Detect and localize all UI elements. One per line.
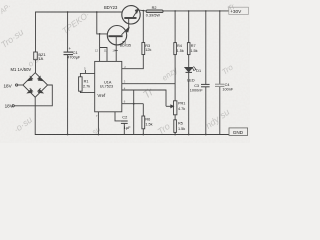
transistor T2 emitter diag [133, 10, 138, 17]
wire R1 bottom to IC Vref [80, 91, 94, 92]
resistor R1 [79, 77, 83, 91]
node AC input 1 terminal [16, 84, 18, 86]
transistor T1 emitter arrow [126, 28, 129, 32]
wire IC pin to wiper column [122, 90, 166, 106]
capacitor C4 leads [219, 11, 221, 84]
capacitor C4 plates [215, 84, 224, 86]
wire IC output pin up to base wire [99, 34, 101, 62]
resistor R3 [142, 43, 145, 55]
resistor R5 [174, 120, 177, 133]
wire R4 column [174, 11, 176, 43]
resistor R2 body [146, 10, 163, 13]
wire R1 top to IC [80, 73, 94, 76]
resistor R4 [174, 43, 177, 55]
capacitor C2 plates [121, 120, 128, 122]
transistor T2 BDY23 [122, 6, 140, 24]
watermark diagonal text [0, 2, 237, 137]
junction dots [67, 11, 69, 13]
wire IC bottom pin to rail [97, 112, 99, 135]
wire IC top pin 2 [100, 48, 107, 62]
resistor R7 [187, 43, 190, 55]
transistor T2 base bar [124, 17, 136, 19]
IC U1 UL7523 regulator box [95, 61, 122, 111]
wire IC pin to R4 column [122, 83, 175, 85]
wire R7 column / LED column [188, 11, 190, 43]
diode D1 LED [185, 68, 193, 72]
wire PR1 to R5 [174, 115, 176, 120]
wire AC2 [14, 85, 52, 106]
wire R6 column [142, 104, 144, 116]
wire IC pin to R6 [122, 103, 144, 105]
paper background [0, 0, 250, 143]
fuse BZ1 1A [34, 52, 38, 60]
wire junction tick [84, 70, 86, 73]
transistor T1 BDX35 [107, 26, 126, 45]
wire T2 base down / T1 diag [122, 19, 129, 35]
component strokes layer 2 [27, 9, 224, 135]
wire T1 emitter to IC [115, 37, 117, 61]
potentiometer PR1 wiper arrow [171, 105, 174, 108]
capacitor C3 leads [205, 11, 207, 85]
wire R3 bottom to IC [122, 55, 144, 69]
capacitor C1 plates [64, 51, 74, 53]
node AC input 2 terminal [12, 105, 14, 107]
capacitor C3 plates [201, 83, 210, 85]
capacitor C1 leads [67, 12, 69, 52]
resistor R6 [142, 116, 145, 129]
GND box [229, 128, 248, 135]
wire AC1 [18, 84, 23, 86]
pin numbers [84, 49, 126, 119]
wire rail down to T1 base [97, 12, 108, 34]
wire wiper arrow [166, 105, 173, 107]
wire R3 top [142, 11, 144, 43]
wire: bottom rail [35, 97, 229, 134]
transistor T1 base bar [108, 35, 122, 37]
potentiometer PR1 [174, 101, 177, 115]
+30V box [229, 7, 249, 14]
wire: top unregulated rail [35, 60, 37, 73]
paper grain overlay [0, 0, 250, 143]
wire mid vertical [133, 90, 135, 135]
wire output rail [138, 10, 146, 11]
capacitor C2 leads [115, 112, 121, 121]
diode bridge arrows [27, 76, 43, 93]
bridge rectifier M1 1A/50V diamond [23, 73, 48, 98]
